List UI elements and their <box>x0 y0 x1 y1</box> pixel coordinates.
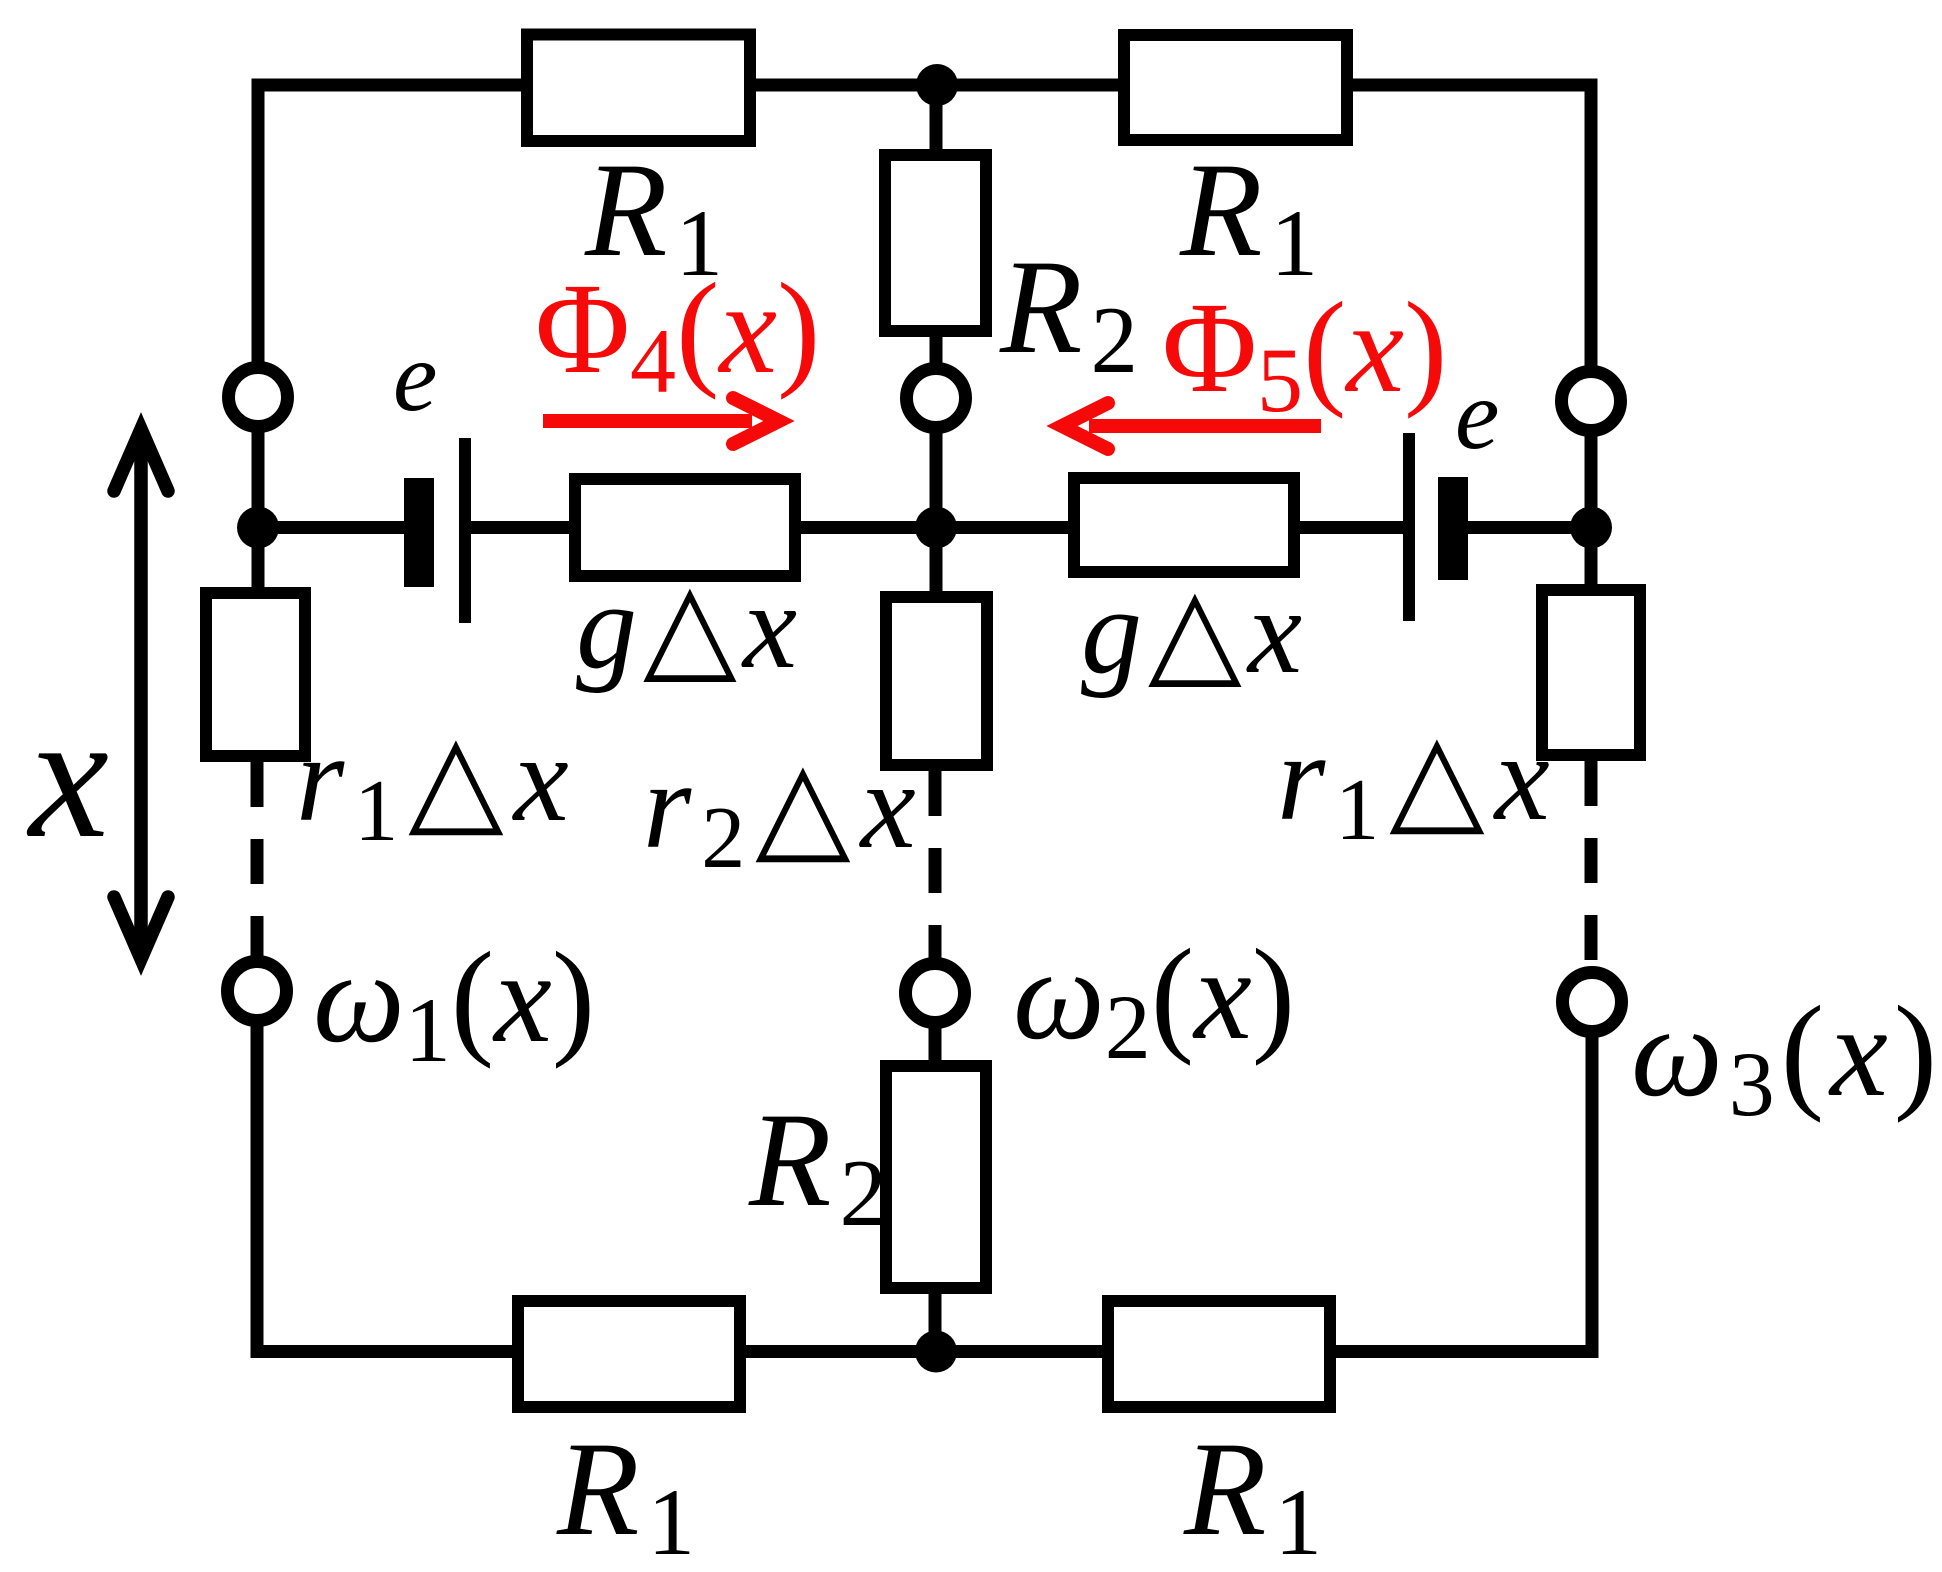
junction dot mid-center <box>915 507 957 549</box>
node circle right top <box>1562 372 1621 431</box>
wire mid stub circle to mid wire <box>930 430 943 527</box>
flux arrow phi5 <box>1062 403 1321 449</box>
wire left rail lower <box>251 1024 264 1358</box>
junction dot top <box>916 64 958 106</box>
wire right rail lower <box>1586 1036 1599 1358</box>
junction dot mid-right <box>1570 507 1612 549</box>
wire left junction to r1dx box <box>252 530 265 592</box>
svg-text:e: e <box>393 321 437 432</box>
wire bottom R2 to bottom rail <box>929 1289 942 1352</box>
svg-text:r1△x: r1△x <box>296 710 579 860</box>
wire mid stub top dot to R2 <box>930 85 943 154</box>
node circle left top <box>229 368 288 427</box>
resistor r1dx right box <box>1542 590 1640 755</box>
wire mid horizontal right of battery <box>1467 521 1591 534</box>
node circle omega1 <box>228 962 287 1021</box>
resistor r2dx mid box <box>886 597 987 765</box>
battery left thin plate <box>459 438 471 623</box>
battery left thick plate <box>404 478 434 587</box>
wire right junction to r1dx box <box>1585 529 1598 586</box>
x axis double arrow <box>114 429 168 959</box>
wire left rail upper <box>252 79 265 365</box>
wire mid junction to r2dx box <box>930 527 943 596</box>
wire right rail circle to mid wire <box>1585 434 1598 526</box>
wire mid circle to bottom R2 <box>929 1025 942 1065</box>
wire left dashed segment <box>251 762 264 962</box>
resistor R1 top-right box <box>1124 35 1347 140</box>
resistor R2 bottom box <box>886 1066 986 1288</box>
wire right rail upper <box>1585 79 1598 369</box>
svg-text:ω2(x): ω2(x) <box>1013 923 1295 1078</box>
battery right thick plate <box>1438 477 1468 580</box>
svg-text:r2△x: r2△x <box>643 737 926 887</box>
wire right dashed segment <box>1585 761 1598 968</box>
svg-text:e: e <box>1455 359 1499 470</box>
svg-text:g△x: g△x <box>1081 564 1308 699</box>
resistor g delta-x left box <box>575 479 795 576</box>
resistor R2 top box <box>885 155 986 331</box>
svg-text:Φ4(x): Φ4(x) <box>535 257 820 412</box>
resistor R1 bottom-left box <box>518 1301 740 1407</box>
wire mid dashed segment <box>929 771 942 962</box>
battery right thin plate <box>1403 433 1415 621</box>
wire top rail <box>252 79 1598 92</box>
resistor R1 top-left box <box>527 35 750 142</box>
svg-text:x: x <box>26 676 109 875</box>
wire mid horizontal left of battery <box>258 521 404 534</box>
wire bottom rail <box>252 1345 1598 1358</box>
node circle omega3 <box>1563 973 1622 1032</box>
svg-text:g△x: g△x <box>576 559 803 694</box>
node circle omega2 <box>906 964 965 1023</box>
wire mid stub R2 to circle <box>930 332 943 366</box>
node circle mid top <box>907 369 966 428</box>
junction dot mid-left <box>237 507 279 549</box>
svg-text:r1△x: r1△x <box>1277 709 1560 859</box>
svg-text:Φ5(x): Φ5(x) <box>1162 276 1447 431</box>
svg-text:ω1(x): ω1(x) <box>313 926 595 1081</box>
wire mid horizontal center span <box>470 521 1404 534</box>
resistor R1 bottom-right box <box>1108 1301 1330 1407</box>
svg-text:ω3(x): ω3(x) <box>1631 980 1942 1135</box>
flux arrow phi4 <box>543 398 779 444</box>
wire left rail between circle and mid wire <box>252 430 265 524</box>
junction dot bottom <box>915 1331 957 1373</box>
resistor g delta-x right box <box>1074 478 1294 572</box>
resistor r1dx left box <box>206 593 305 756</box>
